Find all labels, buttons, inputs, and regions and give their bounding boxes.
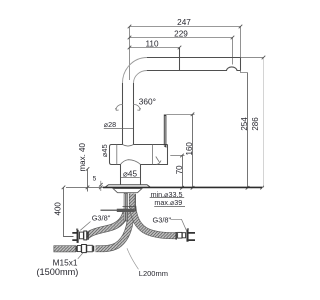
svg-text:5: 5 xyxy=(93,176,97,183)
svg-text:360°: 360° xyxy=(139,97,156,107)
svg-text:G3/8": G3/8" xyxy=(92,214,111,223)
svg-text:110: 110 xyxy=(145,40,158,49)
svg-text:max. 40: max. 40 xyxy=(78,142,87,171)
svg-text:286: 286 xyxy=(251,117,260,131)
svg-text:G3/8": G3/8" xyxy=(153,215,172,224)
svg-text:max.⌀39: max.⌀39 xyxy=(154,198,182,207)
svg-text:400: 400 xyxy=(54,202,63,216)
svg-text:M15x1: M15x1 xyxy=(53,257,78,267)
svg-text:L200mm: L200mm xyxy=(139,269,168,278)
svg-text:254: 254 xyxy=(240,117,249,131)
svg-text:⌀45: ⌀45 xyxy=(100,144,109,157)
svg-text:(1500mm): (1500mm) xyxy=(37,267,79,277)
svg-text:70: 70 xyxy=(175,165,184,174)
svg-text:⌀28: ⌀28 xyxy=(104,120,116,129)
svg-text:247: 247 xyxy=(177,18,191,27)
svg-text:160: 160 xyxy=(185,142,194,156)
svg-text:229: 229 xyxy=(174,30,188,39)
